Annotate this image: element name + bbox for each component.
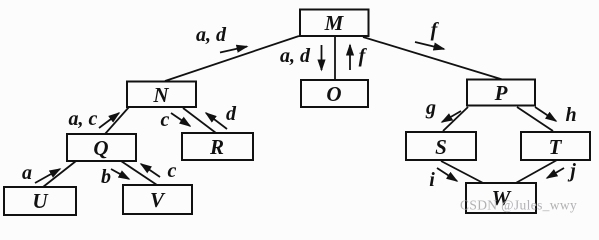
label b on Q-V — [101, 166, 111, 188]
wire N-Q — [105, 107, 129, 134]
wire M-P — [363, 37, 504, 80]
svg-text:M: M — [324, 11, 345, 35]
svg-text:a, d: a, d — [280, 45, 311, 67]
svg-text:c: c — [161, 109, 170, 131]
arrow f up O-M — [349, 45, 351, 70]
svg-text:S: S — [435, 135, 447, 159]
svg-text:g: g — [425, 97, 436, 119]
label g on P-S — [425, 97, 436, 119]
arrow f on M-P — [415, 42, 444, 49]
label a,d on M-O — [280, 45, 311, 67]
label f on M-P — [431, 19, 440, 41]
svg-text:c: c — [168, 160, 177, 182]
arrow a,d down M-O — [321, 45, 323, 70]
svg-text:U: U — [32, 189, 49, 213]
label f on O-M — [359, 45, 368, 67]
label h on P-T — [565, 104, 576, 126]
node R — [182, 133, 253, 160]
node V — [123, 185, 192, 214]
svg-text:O: O — [326, 82, 341, 106]
svg-text:i: i — [429, 169, 435, 191]
label a on U-Q — [22, 162, 32, 184]
svg-text:P: P — [494, 81, 508, 105]
wire P-T — [517, 107, 553, 131]
svg-text:N: N — [152, 83, 169, 107]
wire M-O — [334, 36, 336, 80]
arrow d on R-N — [206, 113, 227, 129]
svg-text:T: T — [549, 135, 563, 159]
wire Q-V — [121, 161, 157, 185]
svg-text:CSDN @Jules_wwy: CSDN @Jules_wwy — [460, 198, 577, 213]
svg-text:d: d — [226, 103, 237, 125]
arrow c on V-Q — [141, 164, 160, 177]
svg-text:h: h — [565, 104, 576, 126]
node T — [521, 132, 590, 160]
arrow a,c on Q-N — [99, 113, 119, 128]
label c on N-R — [161, 109, 170, 131]
label j on T-W — [567, 160, 576, 182]
wire N-R — [183, 108, 216, 133]
node W — [466, 183, 536, 213]
node P — [467, 80, 535, 106]
arrow a,d on M-N — [220, 47, 247, 53]
arrow c on N-R — [171, 113, 190, 126]
node Q — [67, 134, 136, 161]
svg-text:Q: Q — [93, 136, 108, 160]
svg-text:b: b — [101, 166, 111, 188]
arrow g on P-S — [442, 111, 461, 122]
wire M-N — [165, 36, 299, 81]
node S — [406, 132, 476, 160]
arrow h on P-T — [535, 107, 556, 121]
wire P-S — [443, 107, 468, 131]
label i on S-W — [429, 169, 435, 191]
arrow b on Q-V — [111, 169, 129, 179]
svg-text:a: a — [22, 162, 32, 184]
label a,c on Q-N — [69, 108, 98, 130]
arrow j on T-W — [547, 168, 564, 178]
svg-text:a, d: a, d — [196, 24, 227, 46]
label a,d on M-N — [196, 24, 227, 46]
arrow i on S-W — [437, 168, 457, 181]
svg-text:V: V — [150, 188, 166, 212]
watermark CSDN @Jules_wwy — [460, 198, 577, 213]
node U — [4, 187, 76, 215]
label c on V-Q — [168, 160, 177, 182]
svg-text:a, c: a, c — [69, 108, 98, 130]
wire S-W — [441, 161, 485, 184]
svg-text:R: R — [209, 135, 224, 159]
label d on R-N — [226, 103, 237, 125]
node M — [300, 10, 369, 37]
wire Q-U — [43, 161, 76, 187]
node O — [301, 80, 368, 107]
node N — [127, 82, 196, 108]
wire T-W — [514, 160, 557, 184]
arrow a on U-Q — [35, 169, 60, 183]
